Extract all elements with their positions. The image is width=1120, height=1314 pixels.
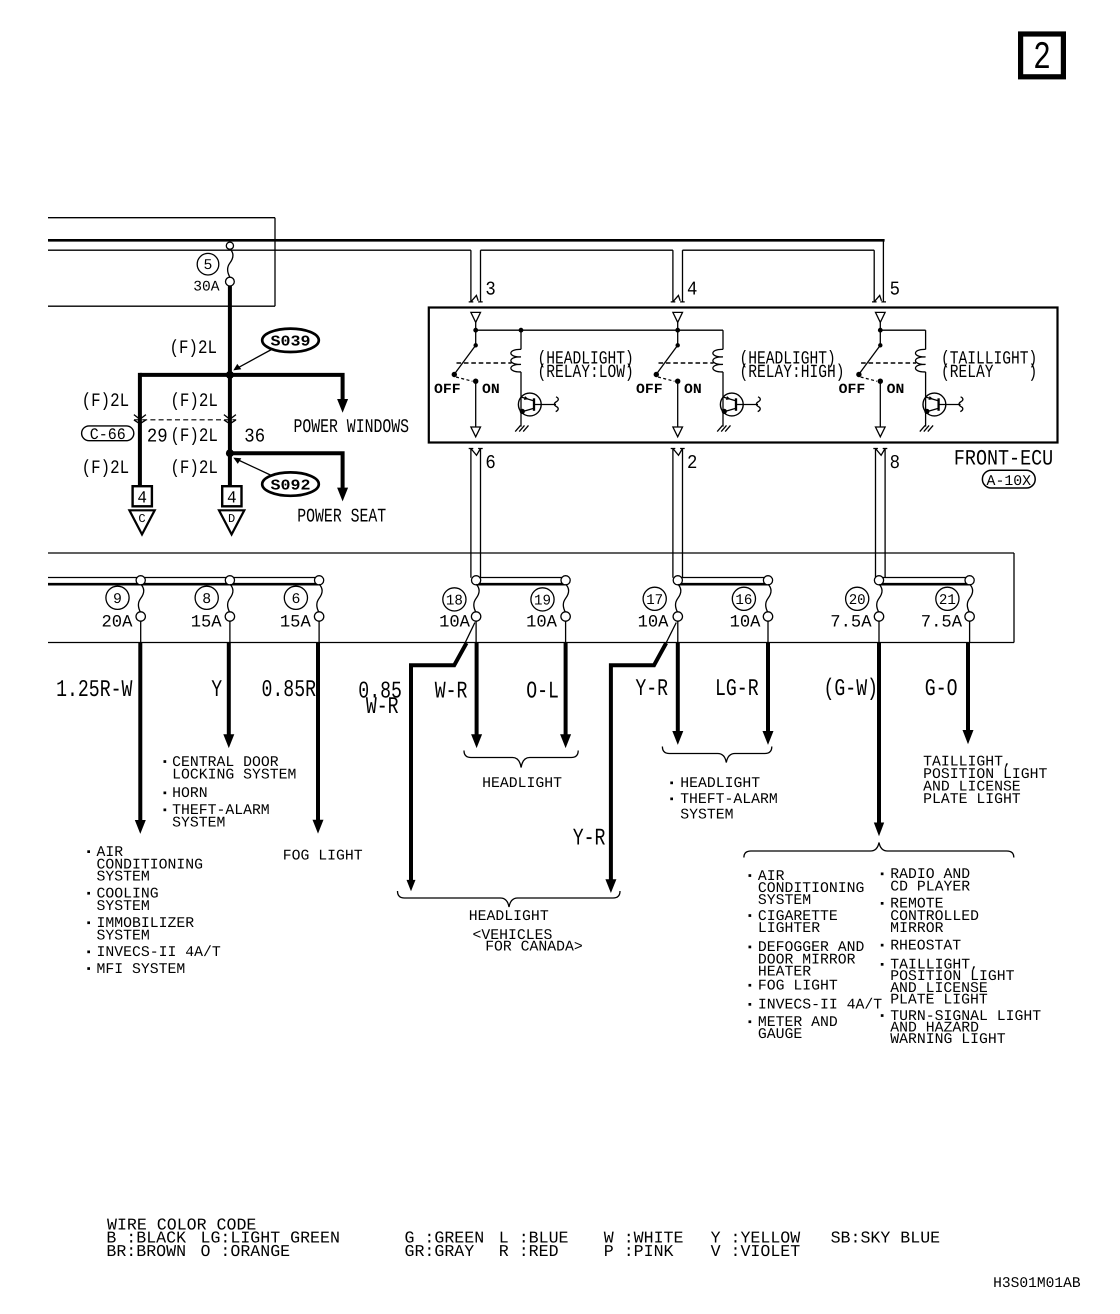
node pin3 junction [473, 328, 478, 333]
label (HEADLIGHT)(RELAY:LOW) [538, 348, 634, 383]
relay K3 switch [856, 330, 916, 384]
fuse 19 circled number [531, 588, 554, 611]
svg-text:WARNING LIGHT: WARNING LIGHT [890, 1032, 1006, 1048]
label HEADLIGHT VEHICLES FOR CANADA [469, 909, 583, 955]
svg-text:G-O: G-O [925, 676, 958, 703]
bus segment A (thin+thick) [48, 578, 319, 585]
fuse 8 15A [225, 576, 234, 643]
relay K2 switch [654, 330, 714, 384]
connector pin 3 (to FRONT-ECU) [469, 250, 483, 302]
fuse 6 circled number [284, 586, 307, 609]
fuse 20 circled number [846, 587, 869, 610]
svg-text:ON: ON [482, 382, 500, 398]
label (HEADLIGHT)(RELAY:HIGH) [740, 348, 845, 383]
fuse 18 10A [465, 576, 481, 644]
svg-text:3: 3 [485, 279, 495, 301]
page number 2 box [1021, 34, 1064, 80]
wire from fuse 5 (F)2L [228, 286, 232, 486]
terminal box 4 (left) [133, 486, 152, 508]
svg-text:(RELAY: (RELAY [941, 362, 994, 383]
connector chevron on left wire [134, 415, 146, 424]
svg-text:R :RED: R :RED [499, 1242, 559, 1261]
relay K1 internal top rail [476, 329, 723, 331]
wire 1.25R-W [56, 643, 146, 834]
wire W-R [435, 643, 482, 749]
svg-text:4: 4 [227, 490, 237, 509]
svg-text:C-66: C-66 [90, 426, 126, 444]
ground (K2 transistor) [717, 425, 730, 431]
relay K2 coil [713, 330, 723, 372]
svg-text:POWER SEAT: POWER SEAT [297, 505, 386, 527]
svg-text:LOCKING SYSTEM: LOCKING SYSTEM [172, 767, 296, 783]
wire color code legend [106, 1215, 940, 1260]
junction dot at S092 [226, 449, 234, 457]
svg-text:ON: ON [684, 382, 702, 398]
connector pin 8 (from FRONT-ECU) [873, 448, 887, 577]
svg-text:PLATE LIGHT: PLATE LIGHT [890, 992, 988, 1008]
wire Y [211, 643, 234, 749]
wire 0.85R [262, 643, 324, 834]
svg-text:THEFT-ALARM: THEFT-ALARM [680, 792, 778, 808]
svg-text:7.5A: 7.5A [830, 614, 872, 633]
svg-text:Y-R: Y-R [635, 676, 668, 703]
fuse 6 15A [314, 576, 323, 643]
connector C-66 dashed boundary [134, 419, 236, 421]
svg-text:D: D [228, 512, 235, 526]
svg-text:4: 4 [687, 279, 697, 301]
junction dot at S039 [226, 371, 234, 379]
svg-text:6: 6 [291, 592, 300, 608]
off-page triangle C [129, 510, 154, 534]
node pin5 junction [878, 328, 883, 333]
relay K3 coil [915, 330, 925, 372]
svg-text:SYSTEM: SYSTEM [758, 893, 811, 909]
svg-text:7.5A: 7.5A [921, 614, 963, 633]
svg-text:W-R: W-R [366, 694, 399, 721]
svg-text:Y-R: Y-R [573, 826, 606, 853]
arrow to power seat [337, 488, 348, 502]
svg-text:RHEOSTAT: RHEOSTAT [890, 938, 961, 954]
svg-text:P :PINK: P :PINK [604, 1242, 674, 1261]
svg-text:SB:SKY BLUE: SB:SKY BLUE [831, 1229, 941, 1248]
bus branch lower (thin) segment 1 [48, 249, 471, 251]
fuse 8 circled number [195, 586, 218, 609]
svg-text:10A: 10A [730, 614, 762, 633]
svg-text:LIGHTER: LIGHTER [758, 921, 820, 937]
list headlight/theft-alarm [670, 776, 778, 823]
list left column (G-W) [749, 869, 883, 1043]
svg-text:8: 8 [890, 452, 900, 474]
svg-text:S092: S092 [271, 477, 311, 494]
svg-text:SYSTEM: SYSTEM [97, 899, 150, 915]
relay K3 output triangle pin [876, 381, 886, 437]
fuse 17 circled number [643, 587, 666, 610]
svg-text:LG-R: LG-R [715, 676, 759, 703]
relay K3 internal top rail [880, 329, 925, 331]
fuse 17 10A [666, 576, 683, 644]
svg-text:POWER WINDOWS: POWER WINDOWS [294, 416, 410, 438]
svg-text:FOR CANADA>: FOR CANADA> [485, 940, 583, 956]
svg-text:(F)2L: (F)2L [170, 457, 218, 479]
svg-text:BR:BROWN: BR:BROWN [106, 1242, 186, 1261]
branch wire to power windows [230, 375, 343, 400]
wire 0.85 W-R (canada headlight feed) [358, 643, 466, 891]
fuse 5 circled number [197, 253, 219, 275]
transistor Q1 [518, 372, 558, 427]
svg-text:(F)2L: (F)2L [170, 390, 218, 412]
brace headlight (W-R,O-L) [464, 751, 578, 768]
main power bus (thick) [48, 239, 885, 242]
svg-text:OFF: OFF [839, 382, 866, 398]
svg-text:SYSTEM: SYSTEM [97, 870, 150, 886]
svg-text:SYSTEM: SYSTEM [97, 929, 150, 945]
svg-text:O :ORANGE: O :ORANGE [201, 1242, 291, 1261]
brace two-column list (G-W) [744, 843, 1014, 858]
svg-text:20A: 20A [102, 614, 134, 633]
relay K3 input triangle pin [876, 312, 886, 330]
wire Y-R [635, 643, 683, 745]
svg-text:(F)2L: (F)2L [170, 425, 218, 447]
wire O-L [526, 643, 571, 749]
list right column (G-W) [881, 867, 1042, 1048]
svg-text:O-L: O-L [526, 679, 559, 706]
wire LG-R [715, 643, 774, 745]
svg-text:30A: 30A [193, 280, 220, 296]
brace headlight canada [398, 891, 621, 907]
svg-text:6: 6 [485, 452, 495, 474]
wire Y-R (canada) [573, 643, 667, 893]
svg-text:1.25R-W: 1.25R-W [56, 677, 133, 704]
svg-text:INVECS-II 4A/T: INVECS-II 4A/T [97, 945, 221, 961]
svg-text:OFF: OFF [636, 382, 663, 398]
bus branch lower (thin) segment 2 [481, 249, 673, 251]
transistor Q3 [923, 372, 963, 427]
svg-text:HEADLIGHT: HEADLIGHT [680, 776, 760, 792]
svg-text:FRONT-ECU: FRONT-ECU [954, 447, 1053, 472]
svg-text:GR:GRAY: GR:GRAY [405, 1242, 475, 1261]
svg-text:9: 9 [113, 592, 122, 608]
brace headlight/theft-alarm (Y-R,LG-R) [662, 747, 771, 763]
left branch wire down [138, 373, 142, 486]
terminal box 4 (middle) [222, 486, 241, 508]
connector pin 5 (to FRONT-ECU) [872, 241, 886, 302]
off-page triangle D [219, 510, 244, 534]
list taillight/position/license (G-O) [923, 755, 1047, 808]
fuse 9 circled number [106, 586, 129, 609]
fuse 20 7.5A [874, 576, 883, 643]
svg-text:2: 2 [1033, 36, 1051, 80]
svg-text:CD PLAYER: CD PLAYER [890, 879, 970, 895]
splice S092 [233, 458, 319, 496]
junction block (top-left box, open at left) [48, 218, 275, 307]
svg-text:29: 29 [147, 426, 168, 448]
svg-text:HEADLIGHT: HEADLIGHT [469, 909, 549, 925]
relay K2 input triangle pin [673, 312, 683, 330]
svg-text:V :VIOLET: V :VIOLET [711, 1242, 801, 1261]
ground (K1 transistor) [515, 425, 528, 431]
svg-text:INVECS-II 4A/T: INVECS-II 4A/T [758, 998, 882, 1014]
svg-text:5: 5 [204, 258, 213, 274]
svg-text:15A: 15A [280, 614, 312, 633]
svg-text:Y: Y [211, 677, 222, 704]
svg-text:17: 17 [646, 593, 663, 609]
svg-text:0.85R: 0.85R [262, 677, 317, 704]
connector name C-66 (stadium) [82, 426, 134, 444]
svg-text:(F)2L: (F)2L [170, 337, 218, 359]
bus segment B [476, 578, 565, 585]
connector name A-10X (stadium) [982, 470, 1035, 490]
svg-text:MIRROR: MIRROR [890, 921, 943, 937]
svg-text:2: 2 [687, 452, 697, 474]
svg-text:21: 21 [939, 593, 956, 609]
svg-text:SYSTEM: SYSTEM [172, 816, 225, 832]
relay K1 output triangle pin [471, 381, 481, 437]
connector pin 6 (from FRONT-ECU) [469, 448, 483, 577]
svg-text:36: 36 [244, 426, 265, 448]
svg-text:W-R: W-R [435, 679, 468, 706]
wire G-O [925, 643, 974, 745]
node coil1 junction [519, 328, 524, 333]
svg-text:OFF: OFF [434, 382, 461, 398]
svg-text:HORN: HORN [172, 786, 208, 802]
svg-text:FOG LIGHT: FOG LIGHT [283, 848, 363, 864]
relay K2 output triangle pin [673, 381, 683, 437]
svg-text:): ) [1029, 362, 1038, 383]
svg-text:(RELAY:LOW): (RELAY:LOW) [538, 362, 634, 383]
svg-text:S039: S039 [271, 334, 311, 351]
svg-text:FOG LIGHT: FOG LIGHT [758, 979, 838, 995]
splice S039 [233, 329, 319, 371]
svg-text:SYSTEM: SYSTEM [680, 808, 733, 824]
svg-text:19: 19 [534, 593, 551, 609]
svg-text:16: 16 [735, 593, 752, 609]
svg-text:ON: ON [887, 382, 905, 398]
svg-text:10A: 10A [439, 614, 471, 633]
bus segment C [678, 578, 768, 585]
connector pin 4 (to FRONT-ECU) [671, 250, 685, 302]
fuse/junction box (open at left) [48, 553, 1014, 643]
fuse 21 7.5A [965, 576, 974, 643]
relay K1 switch [452, 330, 512, 384]
svg-text:4: 4 [137, 490, 147, 509]
svg-text:(RELAY:HIGH): (RELAY:HIGH) [740, 362, 845, 383]
bus branch lower (thin) segment 3 [683, 249, 875, 251]
svg-text:18: 18 [446, 593, 463, 609]
fuse 9 20A [136, 576, 145, 643]
fuse 16 circled number [732, 587, 755, 610]
svg-text:PLATE LIGHT: PLATE LIGHT [923, 792, 1021, 808]
connector chevron on middle wire [224, 415, 236, 424]
fuse 18 circled number [443, 588, 466, 611]
svg-text:H3S01M01AB: H3S01M01AB [993, 1276, 1081, 1292]
svg-text:GAUGE: GAUGE [758, 1027, 803, 1043]
transistor Q2 [720, 372, 760, 427]
svg-text:(F)2L: (F)2L [82, 457, 130, 479]
svg-text:10A: 10A [638, 614, 670, 633]
relay K1 input triangle pin [471, 312, 481, 330]
svg-text:C: C [138, 512, 145, 526]
list central door locking (Y) [164, 755, 297, 832]
svg-text:15A: 15A [191, 614, 223, 633]
list air conditioning etc (1.25R-W) [87, 845, 221, 978]
ground (K3 transistor) [920, 425, 933, 431]
fuse 21 circled number [936, 587, 959, 610]
FRONT-ECU box [429, 308, 1058, 443]
svg-text:5: 5 [890, 279, 900, 301]
bus segment D [879, 578, 970, 585]
branch wire to power seat [230, 453, 343, 488]
svg-text:MFI SYSTEM: MFI SYSTEM [97, 962, 186, 978]
svg-text:A-10X: A-10X [987, 474, 1032, 490]
svg-text:(F)2L: (F)2L [82, 390, 130, 412]
svg-text:20: 20 [849, 593, 866, 609]
svg-text:8: 8 [202, 592, 211, 608]
relay K1 coil [511, 330, 521, 372]
arrow to power windows [337, 399, 348, 413]
svg-text:(G-W): (G-W) [824, 676, 879, 703]
fuse 16 10A [763, 576, 772, 643]
fuse 19 10A [561, 576, 570, 643]
branch wire to left [140, 373, 232, 377]
label (TAILLIGHT)(RELAY) [941, 348, 1037, 383]
node pin4 junction [675, 328, 680, 333]
svg-text:10A: 10A [526, 614, 558, 633]
connector pin 2 (from FRONT-ECU) [671, 448, 685, 577]
wire (G-W) [824, 643, 885, 837]
fuse 5 30A [226, 242, 235, 286]
svg-text:HEADLIGHT: HEADLIGHT [482, 776, 562, 792]
